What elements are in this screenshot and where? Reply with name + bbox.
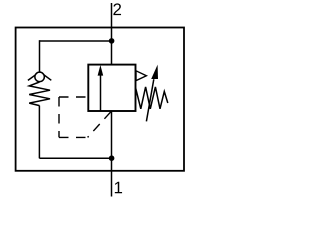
port 2 line	[111, 3, 113, 66]
pilot line (dashed)	[59, 97, 88, 137]
regulator body U1	[88, 65, 135, 111]
wire: inner loop top	[39, 40, 111, 42]
node junction bottom	[109, 155, 115, 161]
node junction top	[109, 38, 115, 44]
wire: check valve lower lead	[38, 106, 40, 159]
port 1 line	[111, 111, 113, 197]
wire: check valve upper lead	[39, 40, 41, 72]
port label 1	[115, 182, 122, 194]
flow arrow inside body	[100, 75, 102, 111]
check valve V1 ball	[35, 72, 45, 82]
check valve V1 spring	[29, 82, 50, 106]
spring (setting) right	[136, 87, 168, 109]
port label 2	[113, 3, 121, 15]
relief vent triangle	[136, 71, 146, 81]
check valve V1 seat	[28, 72, 51, 81]
enclosure frame (component box)	[16, 28, 184, 171]
pilot line diagonal (dashed)	[88, 112, 111, 138]
adjustment arrow	[146, 79, 153, 121]
wire: inner loop bottom	[39, 157, 111, 159]
